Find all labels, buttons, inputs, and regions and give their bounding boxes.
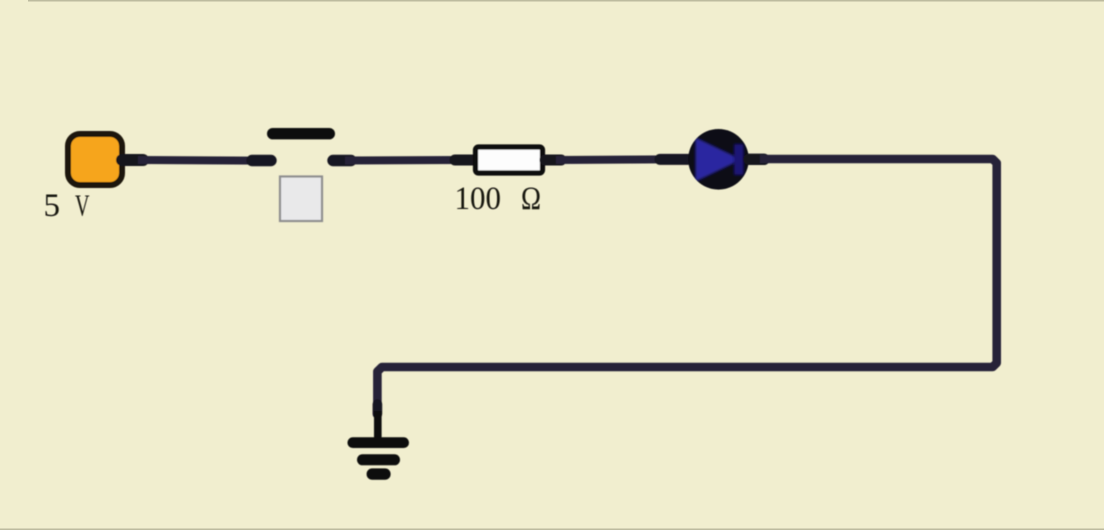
svg-text:V: V: [75, 188, 90, 223]
svg-text:Ω: Ω: [521, 181, 541, 217]
pin of V1 (right stub): [122, 154, 143, 166]
faint top edge line: [28, 0, 1104, 2]
pin of R1 (right stub): [545, 155, 561, 166]
svg-text:100: 100: [455, 181, 502, 217]
long wire from LED right, down, left to ground stub: [377, 159, 996, 407]
ground bar 1 (widest): [348, 437, 410, 448]
pin of D1 (right stub): [749, 154, 764, 165]
LED D1 anode triangle: [696, 138, 742, 182]
pushbutton S1 body (gray square): [280, 177, 322, 222]
wire from V1 to switch S1: [138, 156, 255, 165]
LED D1 body (circle): [688, 129, 749, 190]
LED D1 cathode bar: [734, 144, 744, 175]
wire from R1 to LED D1: [556, 155, 665, 164]
wire endpoint cap at LED left: [660, 154, 688, 165]
faint bottom edge line: [0, 529, 1104, 530]
wire endpoint cap at ground: [373, 404, 383, 414]
pushbutton S1 top bar: [267, 128, 335, 139]
svg-text:5: 5: [44, 188, 61, 224]
resistor R1 body: [476, 147, 543, 173]
wire endpoint cap at switch right: [333, 155, 351, 166]
power source V1 (5V supply, orange square): [68, 134, 122, 185]
ground bar 3 (narrowest): [367, 468, 391, 479]
ground pin (vertical stub): [374, 411, 382, 443]
wire endpoint cap at switch left: [252, 155, 271, 166]
ground bar 2: [357, 454, 400, 465]
wire from switch S1 to resistor R1: [345, 156, 460, 165]
pin of R1 (left stub): [455, 155, 474, 166]
